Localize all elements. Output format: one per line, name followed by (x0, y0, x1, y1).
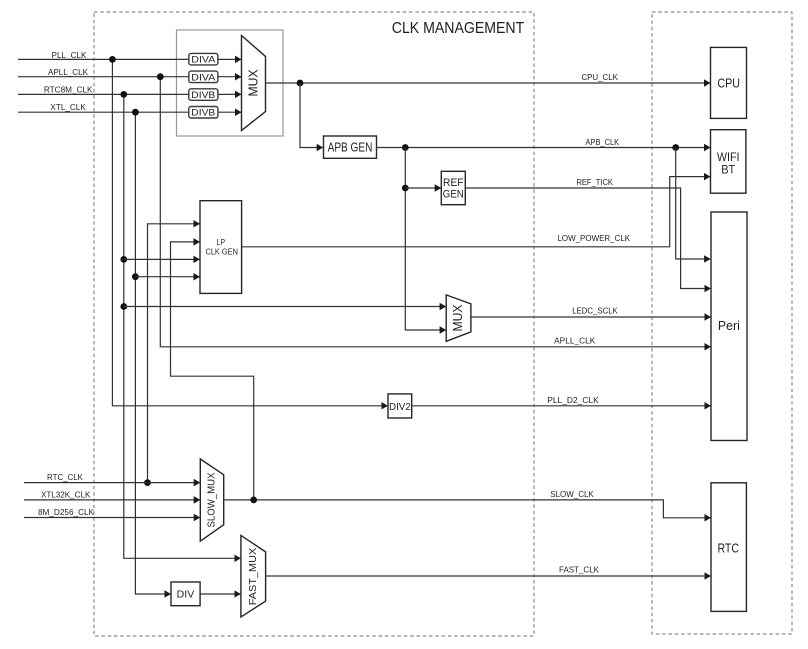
wire RTC8M to LP input3 (124, 258, 200, 260)
divider DIVA (PLL) (189, 53, 218, 65)
svg-text:DIV: DIV (177, 589, 195, 601)
node RTC8M to LP branch (120, 256, 127, 263)
wire RTC_CLK up to LP input1 (148, 224, 200, 483)
wire REF_TICK (465, 188, 710, 289)
wire PLL_D2_CLK (412, 405, 711, 407)
svg-text:GEN: GEN (443, 189, 464, 201)
block Peri (711, 212, 747, 441)
dashed boundary: right peripherals region (652, 12, 792, 634)
wire RTC_CLK input (24, 482, 200, 484)
node junction APB at x405 (402, 144, 409, 151)
wire APB branch down to Peri (676, 148, 711, 260)
svg-text:CLK GEN: CLK GEN (206, 248, 239, 257)
node XTL tap (132, 109, 139, 116)
wire LEDC_SCLK (471, 316, 711, 318)
wire DIVB1 to MUX (218, 93, 241, 95)
wire FAST_CLK (266, 575, 711, 577)
svg-text:FAST_MUX: FAST_MUX (248, 547, 259, 605)
wire RTC8M to LEDC mux input1 (124, 306, 446, 308)
vertical bus PLL x112 (112, 59, 387, 405)
node APLL tap (157, 73, 164, 80)
svg-text:8M_D256_CLK: 8M_D256_CLK (38, 507, 94, 517)
divider DIVA (APLL) (189, 71, 218, 83)
svg-text:PLL_D2_CLK: PLL_D2_CLK (547, 395, 599, 405)
node junction at REF GEN tap (402, 185, 409, 192)
svg-text:SLOW_CLK: SLOW_CLK (550, 489, 594, 499)
node RTC_CLK tap (144, 479, 151, 486)
svg-text:APLL_CLK: APLL_CLK (48, 67, 88, 77)
svg-text:APB_CLK: APB_CLK (586, 137, 620, 147)
svg-text:BT: BT (721, 163, 736, 177)
mux LEDC MUX (446, 295, 471, 341)
node XTL to LP branch (132, 273, 139, 280)
svg-text:MUX: MUX (451, 304, 465, 332)
node SLOW_CLK junction (250, 497, 257, 504)
block APB GEN (324, 136, 377, 158)
svg-text:LEDC_SCLK: LEDC_SCLK (572, 306, 618, 316)
svg-text:XTL32K_CLK: XTL32K_CLK (41, 490, 91, 500)
divider DIVB (XTL) (189, 107, 218, 119)
svg-text:REF_TICK: REF_TICK (576, 177, 613, 187)
svg-text:MUX: MUX (247, 69, 261, 97)
block REF GEN (441, 171, 465, 204)
wire RTC8M_CLK input (18, 93, 189, 95)
vertical bus RTC8M x124 (124, 94, 241, 558)
vertical bus APLL x160 (160, 77, 710, 347)
svg-text:RTC8M_CLK: RTC8M_CLK (44, 85, 93, 95)
wire 8M_D256_CLK input (24, 517, 200, 519)
block LP CLK GEN (200, 201, 242, 294)
wire DIVB2 to MUX (218, 111, 241, 113)
wire XTL_CLK input (18, 111, 189, 113)
vertical bus XTL x135 (135, 112, 170, 594)
wire branch to APB GEN (300, 83, 323, 148)
mux SLOW_MUX (200, 459, 223, 541)
node RTC8M tap (120, 91, 127, 98)
wire LOW_POWER_CLK to WIFI/BT (242, 177, 710, 247)
block RTC (711, 483, 746, 612)
wire DIVA1 to MUX (218, 58, 241, 60)
wire PLL_CLK input (18, 58, 189, 60)
svg-text:CPU_CLK: CPU_CLK (581, 72, 618, 82)
svg-text:CPU: CPU (717, 76, 740, 90)
block CPU (711, 47, 747, 118)
svg-text:RTC: RTC (717, 542, 739, 556)
node RTC8M to LEDC branch (120, 303, 127, 310)
wire SLOW_CLK up to LP input2 (171, 242, 254, 500)
svg-text:SLOW_MUX: SLOW_MUX (206, 472, 217, 527)
wire APB_CLK (377, 147, 711, 149)
mux FAST_MUX (241, 535, 266, 617)
node junction APB at x676 (672, 144, 679, 151)
mux CPU clock MUX (242, 36, 266, 131)
svg-text:DIV2: DIV2 (389, 401, 411, 413)
node PLL tap (109, 56, 116, 63)
block DIV2 (388, 394, 412, 418)
svg-text:XTL_CLK: XTL_CLK (50, 102, 86, 112)
svg-text:RTC_CLK: RTC_CLK (47, 472, 83, 482)
node junction on CPU_CLK (297, 80, 304, 87)
wire into REF GEN (405, 187, 441, 189)
svg-text:DIVB: DIVB (191, 90, 215, 101)
svg-text:LOW_POWER_CLK: LOW_POWER_CLK (557, 233, 630, 243)
svg-text:APB GEN: APB GEN (328, 141, 373, 155)
svg-text:DIVA: DIVA (191, 55, 216, 66)
svg-text:Peri: Peri (718, 319, 740, 333)
svg-text:DIVB: DIVB (191, 108, 215, 119)
wire DIVA2 to MUX (218, 76, 241, 78)
svg-text:REF: REF (443, 177, 464, 189)
block DIV (171, 582, 200, 606)
svg-text:FAST_CLK: FAST_CLK (559, 565, 599, 575)
wire APB branch down to REF GEN and LEDC mux (405, 148, 445, 331)
wire SLOW_CLK (224, 500, 711, 518)
wire XTL32K_CLK input (24, 499, 200, 501)
dashed boundary: CLK MANAGEMENT region (94, 12, 534, 636)
svg-text:DIVA: DIVA (191, 72, 216, 83)
wire XTL to LP input4 (135, 276, 199, 278)
svg-text:LP: LP (217, 238, 226, 247)
svg-text:CLK MANAGEMENT: CLK MANAGEMENT (392, 20, 525, 37)
svg-text:APLL_CLK: APLL_CLK (554, 336, 595, 346)
wire DIV to FAST_MUX (200, 593, 240, 595)
wire CPU_CLK (266, 82, 711, 84)
group box around dividers and MUX (177, 30, 284, 136)
svg-text:PLL_CLK: PLL_CLK (52, 50, 87, 60)
block WIFI BT (711, 130, 746, 194)
divider DIVB (RTC8M) (189, 89, 218, 101)
wire APLL_CLK input (18, 76, 189, 78)
